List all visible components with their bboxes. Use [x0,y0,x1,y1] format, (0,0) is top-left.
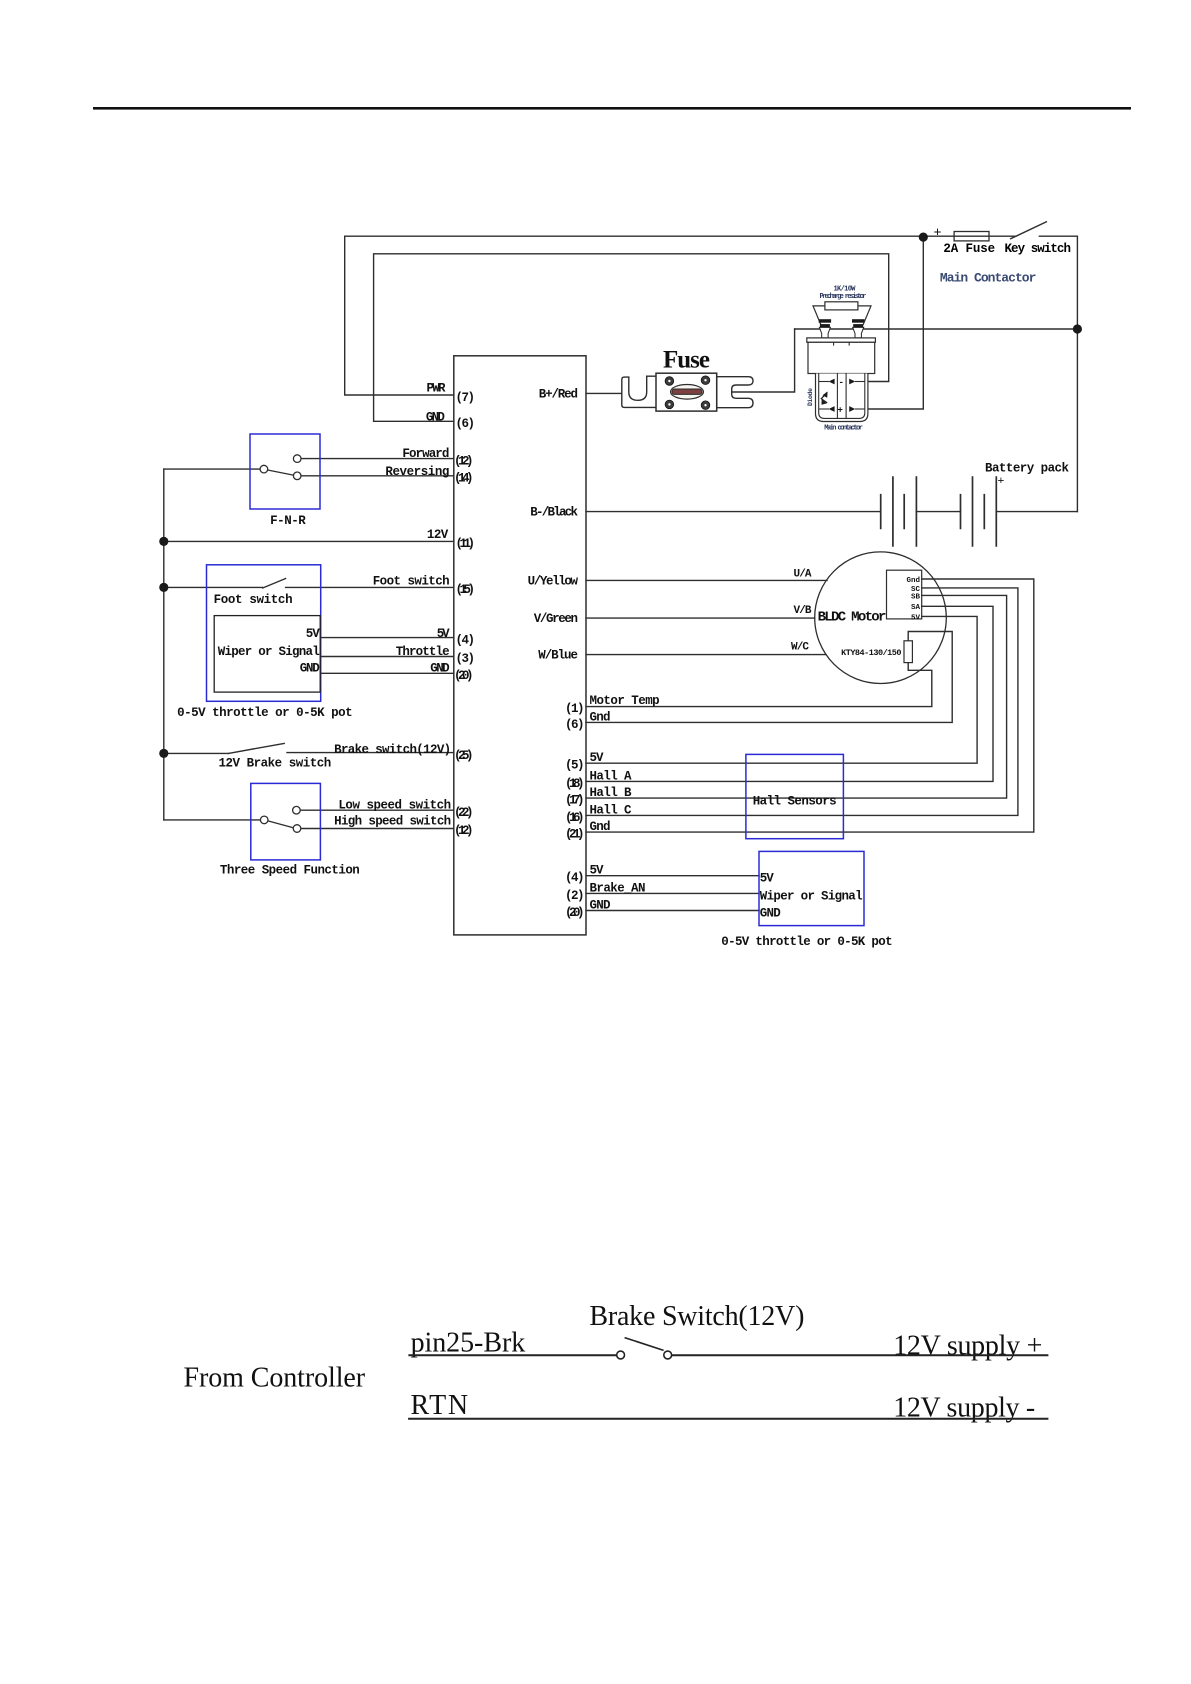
svg-text:Reversing: Reversing [385,465,449,479]
coil terminal plus [819,408,829,410]
wire brake switch left [164,752,229,754]
wire contactor stud line to right rail [795,328,1078,330]
ANL fuse F1 [622,373,753,411]
wire high speed [301,828,454,830]
wire 12V(11) [164,540,454,542]
svg-text:From Controller: From Controller [184,1363,366,1394]
svg-text:Brake Switch(12V): Brake Switch(12V) [589,1301,804,1332]
svg-text:-: - [839,378,844,388]
svg-text:5V: 5V [437,627,450,641]
right outside labels [590,694,660,912]
svg-text:Main contactor: Main contactor [824,425,863,433]
svg-text:Diode: Diode [807,388,814,406]
svg-text:B+/Red: B+/Red [539,387,578,401]
svg-text:B-/Black: B-/Black [530,506,578,520]
wire lower GND (20) [586,910,759,912]
fuse left terminal [622,376,657,407]
wire Throttle(3) [321,656,454,658]
svg-text:(12): (12) [454,455,474,469]
svg-text:RTN: RTN [411,1390,469,1421]
svg-text:1K/10W: 1K/10W [834,285,857,293]
brake switch contact right [664,1351,672,1359]
fuse body [656,373,717,411]
svg-text:(20): (20) [565,906,585,920]
svg-text:Brake switch(12V): Brake switch(12V) [334,743,451,757]
svg-text:+: + [998,473,1005,487]
right inside labels [528,387,579,662]
fuse element [671,385,704,400]
junction dot foot switch [159,583,168,592]
wire three speed common [164,819,261,821]
svg-text:Throttle: Throttle [396,645,450,659]
svg-text:PWR: PWR [427,381,446,395]
wire key switch to right rail, down to battery + [1039,236,1077,511]
wire motor temp (1) [586,663,932,707]
svg-text:Forward: Forward [402,447,449,461]
wire junction drop to contactor coil + [865,237,924,409]
wire hall C (16) [586,588,1018,816]
wire hall gnd (21) [586,579,1034,832]
svg-text:Motor Temp: Motor Temp [590,694,660,708]
contactor left stud [819,319,831,338]
foot switch blade [263,579,286,589]
svg-text:5V: 5V [760,872,774,886]
svg-text:KTY84-130/150: KTY84-130/150 [841,648,901,658]
svg-text:(4): (4) [456,633,476,647]
svg-text:(18): (18) [565,777,585,791]
hall sensors box [746,754,844,838]
controller box U1 [454,356,586,935]
svg-text:GND: GND [426,411,445,425]
precharge resistor R1 [813,306,825,325]
coil core lines [837,374,846,419]
svg-text:GND: GND [300,662,320,676]
throttle pot box [214,616,320,693]
battery pack BT1 [881,476,997,547]
svg-text:12V: 12V [427,528,449,542]
wire hall B (17) [586,595,1007,798]
wire PWR(7) loop to key switch line [345,236,1016,395]
junction dot brake switch [159,749,168,758]
F-N-R switch S1 [250,434,320,509]
svg-text:(11): (11) [456,537,476,551]
svg-text:Main Contactor: Main Contactor [940,271,1037,286]
wire W/Blue phase [586,654,826,656]
right pin numbers [565,702,585,920]
svg-text:+: + [838,406,843,416]
wire low speed [300,809,454,811]
svg-text:5V: 5V [911,614,921,622]
svg-text:Fuse: Fuse [663,347,710,374]
junction dot 12V [159,537,168,546]
svg-text:High speed switch: High speed switch [334,814,451,828]
svg-text:GND: GND [590,899,611,913]
svg-text:Foot switch: Foot switch [214,593,293,607]
wire left rail [163,469,165,820]
svg-text:12V Brake switch: 12V Brake switch [219,756,332,770]
contactor lower housing [816,374,868,422]
svg-text:(4): (4) [565,871,585,885]
wire B+/Red to fuse [586,392,622,394]
coil terminal minus [819,381,829,383]
svg-text:12V supply +: 12V supply + [893,1330,1042,1361]
wire Brake_AN (2) [586,892,759,894]
BLDC motor M1 [815,552,947,684]
svg-text:GND: GND [430,662,450,676]
wire RTN [408,1418,1048,1420]
wire foot switch left [164,586,263,588]
2A fuse F2 [954,232,989,241]
svg-text:SA: SA [911,604,921,612]
fuse screws [665,376,710,410]
svg-text:Brake_AN: Brake_AN [590,881,646,895]
svg-text:Precharge resistor: Precharge resistor [820,293,867,301]
svg-text:Hall Sensors: Hall Sensors [753,795,837,809]
svg-text:Three Speed Function: Three Speed Function [220,863,360,877]
svg-text:Hall C: Hall C [590,803,632,817]
svg-text:F-N-R: F-N-R [270,514,306,528]
brake switch contact left [617,1351,625,1359]
wire F-N-R common to rail [164,468,260,470]
top rule [93,107,1131,110]
wire hall A (18) [586,606,993,781]
temp sensor KTY84 [904,641,912,663]
wire lower 5V (4) [586,875,759,877]
motor connector [887,570,922,619]
contactor body [808,342,875,373]
svg-text:(5): (5) [565,759,585,773]
svg-text:(6): (6) [456,417,476,431]
svg-text:5V: 5V [306,627,320,641]
svg-text:U/A: U/A [794,569,812,581]
svg-text:0-5V throttle or 0-5K pot: 0-5V throttle or 0-5K pot [721,935,892,949]
svg-text:(17): (17) [565,794,585,808]
brake switch blade [625,1338,664,1351]
svg-text:Wiper or Signal: Wiper or Signal [218,645,320,659]
coil diode [821,392,827,403]
svg-text:(20): (20) [454,669,474,683]
svg-text:GND: GND [760,907,781,921]
fuse right terminal [717,377,753,408]
svg-text:(12): (12) [454,824,474,838]
svg-text:Low speed switch: Low speed switch [338,799,451,813]
svg-text:Key switch: Key switch [1005,242,1072,256]
svg-text:BLDC Motor: BLDC Motor [818,610,887,626]
contactor top plate [807,338,876,342]
three speed switch S3 [251,783,321,860]
wire V/Green phase [586,617,815,619]
wire Reversing [301,475,454,477]
wire foot switch right [286,586,454,588]
svg-text:(6): (6) [565,718,585,732]
svg-text:(16): (16) [565,811,585,825]
svg-text:(21): (21) [565,828,585,842]
wire B-/Black to battery [586,511,1077,513]
wire throttle GND(20) [321,672,454,674]
svg-text:W/Blue: W/Blue [538,648,578,662]
wire motor temp gnd (6) [586,632,952,723]
svg-text:(7): (7) [456,391,476,405]
wire GND(6) loop to contactor coil - [374,254,889,421]
svg-text:Foot switch: Foot switch [373,574,450,588]
wire hall 5V (5) [586,616,977,763]
svg-text:(3): (3) [456,652,476,666]
brake switch blade [229,743,285,753]
svg-text:Gnd: Gnd [590,710,611,724]
foot switch box S2 [207,565,321,702]
svg-text:+: + [934,226,942,241]
wire to 12V supply + [672,1354,1049,1356]
lower wiper box [759,851,864,925]
left pin numbers [454,391,475,838]
svg-text:V/Green: V/Green [534,612,578,626]
left pin name labels [334,381,451,828]
svg-text:SB: SB [911,593,921,601]
svg-text:5V: 5V [590,751,604,765]
wire brake switch right [287,752,454,754]
svg-text:(22): (22) [454,806,474,820]
svg-text:(1): (1) [565,702,585,716]
wire throttle 5V(4) [321,637,454,639]
wire Forward [301,458,454,460]
wire U/Yellow phase [586,579,827,581]
key switch SW blade [1010,222,1047,240]
wire pin25-Brk [408,1354,616,1356]
main contactor K1 [813,302,871,325]
junction dot stud line / right rail [1073,324,1082,333]
svg-text:U/Yellow: U/Yellow [528,575,579,589]
svg-text:Hall A: Hall A [590,769,632,783]
svg-text:Wiper or Signal: Wiper or Signal [760,889,863,903]
svg-text:W/C: W/C [791,642,809,654]
junction dot key line [919,233,928,242]
svg-text:(25): (25) [454,749,474,763]
svg-text:(15): (15) [456,583,476,597]
svg-text:Gnd: Gnd [906,577,920,585]
svg-text:2A Fuse: 2A Fuse [943,242,995,256]
svg-text:(2): (2) [565,889,585,903]
svg-text:0-5V throttle or 0-5K pot: 0-5V throttle or 0-5K pot [177,706,353,720]
svg-text:(14): (14) [454,472,474,486]
svg-text:Gnd: Gnd [590,820,611,834]
contactor right stud [852,319,864,338]
svg-text:Hall B: Hall B [590,786,632,800]
wire fuse to contactor stud line [732,329,795,392]
svg-text:5V: 5V [590,864,604,878]
svg-text:pin25-Brk: pin25-Brk [411,1328,526,1359]
svg-text:V/B: V/B [794,605,812,617]
